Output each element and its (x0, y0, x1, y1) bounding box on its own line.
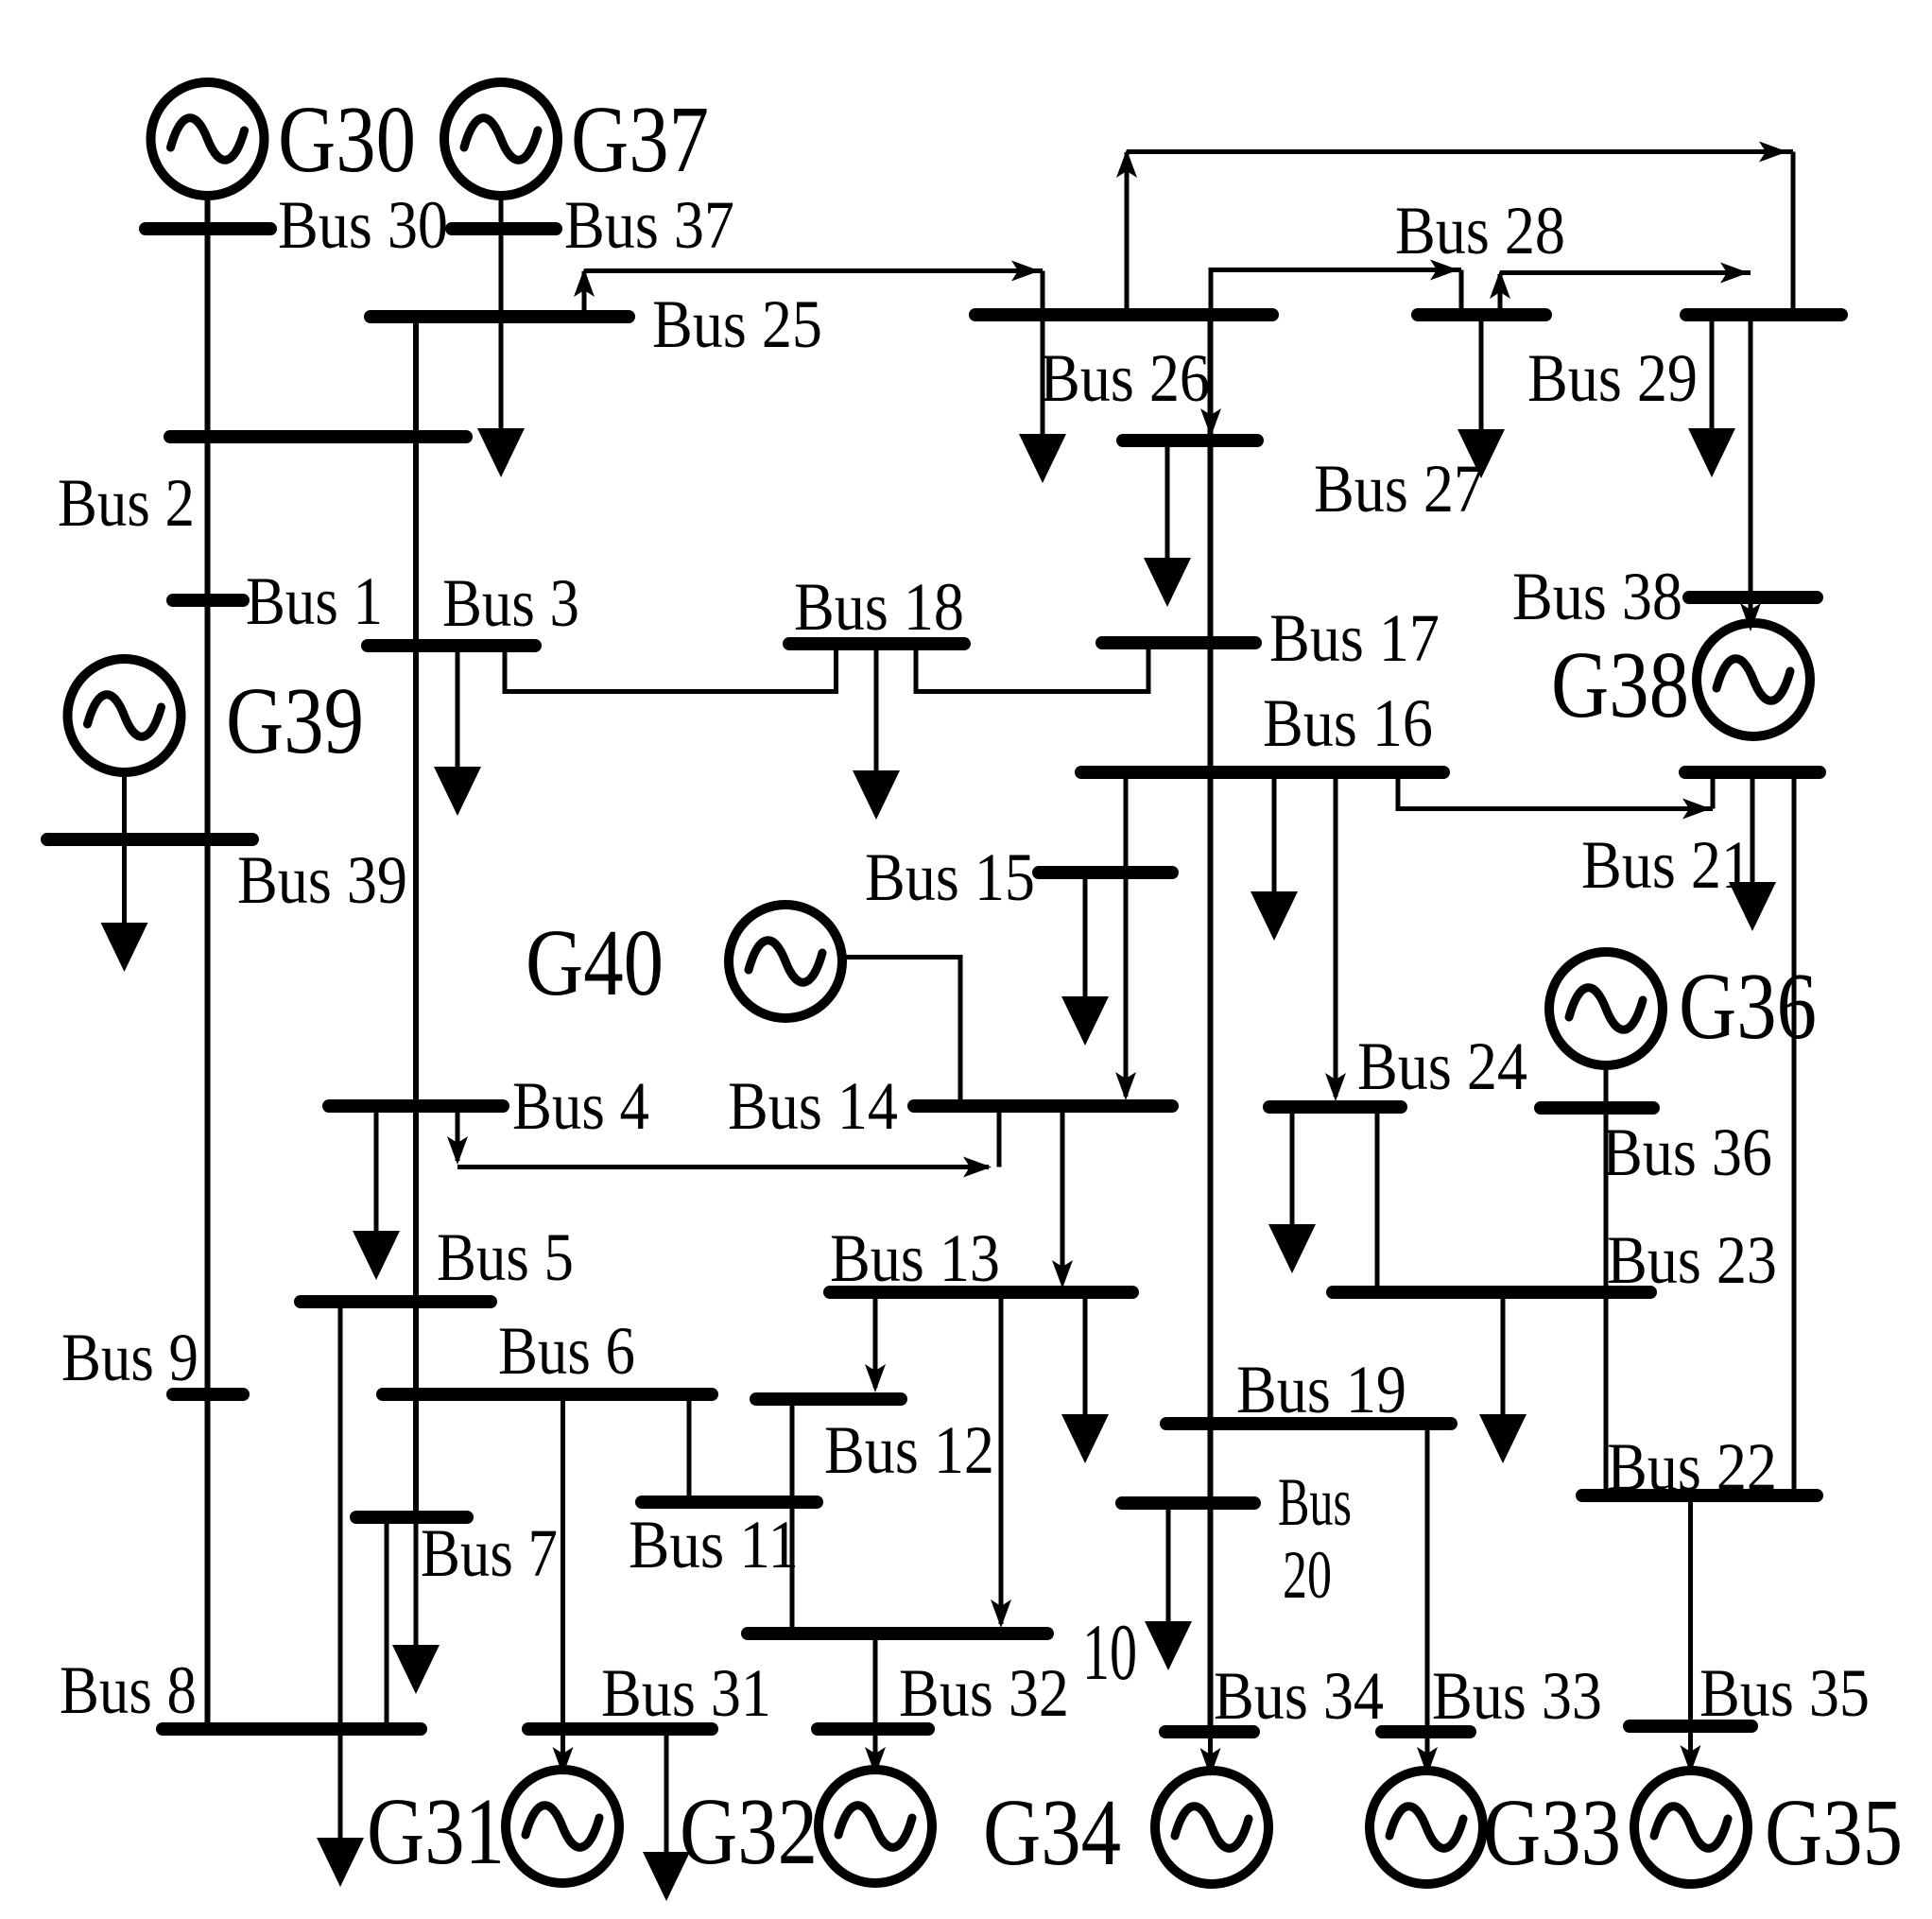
bus bar Bus 10 (748, 1627, 1047, 1640)
generator G34 (1155, 1771, 1268, 1884)
svg-text:Bus 25: Bus 25 (652, 286, 822, 362)
wire line 14-13 (1061, 1106, 1065, 1282)
bus bar Bus 16 (1081, 766, 1443, 779)
wire line 25-2-3-4-5-6-7 (vertical through Bus 2,3,4,5,6 to Bus 7) (413, 317, 419, 1517)
arrowhead line 28-29 end right (1720, 263, 1749, 284)
svg-text:G32: G32 (680, 1778, 818, 1884)
arrowhead line 13-10 end at Bus 10 (991, 1599, 1011, 1628)
generator G30 (151, 82, 265, 196)
svg-text:Bus 12: Bus 12 (824, 1412, 994, 1488)
svg-text:Bus 14: Bus 14 (728, 1068, 898, 1144)
svg-text:Bus 29: Bus 29 (1527, 340, 1698, 416)
wire line 12-11-10 (790, 1399, 795, 1634)
bus bar Bus 15 (1039, 866, 1172, 879)
generator G40 (729, 905, 842, 1018)
arrowhead G35 link (1681, 1745, 1701, 1773)
wire line 6-31-G31 (561, 1394, 565, 1764)
wire line 28-29 riser (1498, 274, 1503, 315)
svg-text:Bus 39: Bus 39 (237, 842, 407, 918)
svg-text:Bus 28: Bus 28 (1395, 193, 1565, 268)
svg-text:Bus 13: Bus 13 (830, 1220, 1000, 1296)
load arrow at Bus 26 (1019, 315, 1066, 483)
svg-text:Bus 35: Bus 35 (1699, 1655, 1870, 1731)
bus bar Bus 26 (975, 308, 1272, 321)
generator G31 (506, 1770, 619, 1883)
arrowhead line 16-21 end right (1682, 799, 1711, 820)
wire line 30-2-1-39-9-8 (vertical through Bus 2, Bus 1, Bus 39, Bus 9 to Bus 8) (205, 196, 211, 1729)
load arrow at Bus 3 (434, 646, 481, 816)
load arrow at Bus 31 (643, 1729, 690, 1901)
svg-text:Bus 23: Bus 23 (1607, 1222, 1777, 1298)
bus bar Bus 8 (163, 1722, 421, 1736)
wire line 34-G34 (1208, 1732, 1213, 1767)
load arrow at Bus 21 (1729, 772, 1776, 931)
svg-text:Bus 17: Bus 17 (1269, 600, 1440, 676)
bus bar Bus 2 (170, 430, 466, 443)
load arrow at Bus 25 (477, 317, 525, 477)
generator G38 (1697, 623, 1810, 736)
load arrow at Bus 18 (853, 644, 900, 820)
svg-text:G30: G30 (278, 86, 416, 192)
svg-text:G37: G37 (571, 86, 709, 192)
svg-text:G33: G33 (1483, 1779, 1621, 1885)
bus bar Bus 6 (383, 1388, 712, 1401)
load arrow at Bus 4 (353, 1106, 400, 1280)
wire line 25-26 horizontal (584, 268, 1043, 273)
svg-text:Bus 8: Bus 8 (60, 1652, 197, 1728)
svg-text:Bus 34: Bus 34 (1214, 1658, 1384, 1734)
bus bar Bus 7 (356, 1511, 467, 1524)
bus bar Bus 39 (47, 833, 252, 846)
wire line 28-29 horizontal (1500, 270, 1751, 275)
svg-text:Bus 6: Bus 6 (498, 1313, 635, 1389)
svg-text:Bus: Bus (1278, 1464, 1352, 1540)
load arrow at Bus 39 (101, 839, 148, 972)
arrowhead line 25-26 start up (574, 268, 595, 297)
bus bar Bus 9 (173, 1388, 243, 1401)
bus bar Bus 38 (1689, 591, 1817, 604)
arrowhead line 14-13 end at Bus 13 (1052, 1260, 1073, 1288)
bus bar Bus 23 (1333, 1286, 1650, 1299)
wire line 26-29 drop to Bus 29 (1791, 152, 1796, 316)
bus bar Bus 3 (368, 639, 535, 652)
bus bar Bus 13 (830, 1286, 1132, 1299)
svg-text:Bus 27: Bus 27 (1314, 451, 1484, 527)
svg-text:10: 10 (1082, 1608, 1137, 1697)
svg-text:Bus 26: Bus 26 (1040, 340, 1210, 416)
wire line 13-12 (873, 1292, 878, 1388)
svg-text:Bus 9: Bus 9 (61, 1320, 198, 1395)
arrowhead G33 link (1417, 1747, 1438, 1775)
bus bar Bus 24 (1269, 1100, 1401, 1114)
svg-text:G34: G34 (983, 1779, 1121, 1885)
svg-text:Bus 7: Bus 7 (421, 1515, 558, 1591)
bus bar Bus 30 (146, 222, 270, 235)
bus bar Bus 19 (1166, 1417, 1451, 1430)
wire line 18-17 (916, 643, 1148, 692)
wire line G40 to Bus 14 (842, 958, 960, 1102)
bus bar Bus 29 (1686, 308, 1841, 321)
wire line 29-38 to G38 (1749, 315, 1753, 620)
bus bar Bus 25 (371, 310, 629, 323)
svg-text:Bus 3: Bus 3 (442, 565, 579, 641)
svg-text:Bus 18: Bus 18 (794, 569, 964, 645)
svg-text:G40: G40 (526, 909, 664, 1015)
generator G35 (1634, 1771, 1748, 1884)
wire line 10-32-G32 (873, 1634, 878, 1764)
bus bar Bus 31 (528, 1722, 712, 1736)
load arrow at Bus 24 (1268, 1107, 1316, 1273)
arrowhead line 26-29 end right (1759, 142, 1787, 163)
arrowhead line 4-14 end right (963, 1157, 992, 1178)
arrowhead G32 link (865, 1747, 886, 1775)
wire line 26-28 (1211, 270, 1461, 316)
bus bar Bus 37 (452, 222, 556, 235)
svg-text:Bus 32: Bus 32 (899, 1655, 1069, 1731)
svg-text:Bus 22: Bus 22 (1607, 1429, 1777, 1505)
bus bar Bus 35 (1630, 1720, 1751, 1733)
arrowhead G38 link (1740, 603, 1761, 631)
wire line 26-29 riser (1125, 152, 1130, 315)
wire line 22-35-G35 (1688, 1495, 1693, 1764)
wire line 19-33-G33 (1425, 1424, 1430, 1764)
bus bar Bus 34 (1165, 1725, 1253, 1738)
svg-text:Bus 36: Bus 36 (1602, 1115, 1772, 1190)
generator G37 (444, 82, 558, 196)
bus bar Bus 14 (914, 1099, 1172, 1113)
wire line G36-36-23-22 (1604, 1065, 1609, 1495)
svg-text:Bus 31: Bus 31 (601, 1655, 771, 1731)
load arrow at Bus 23 (1479, 1292, 1527, 1463)
svg-text:20: 20 (1283, 1537, 1332, 1613)
svg-text:Bus 24: Bus 24 (1357, 1029, 1527, 1104)
svg-text:G38: G38 (1551, 631, 1689, 737)
generator G32 (819, 1770, 932, 1883)
wire line 16-21 (1398, 772, 1713, 809)
bus bar Bus 22 (1582, 1489, 1817, 1502)
svg-text:Bus 5: Bus 5 (437, 1219, 574, 1295)
svg-text:Bus 21: Bus 21 (1581, 827, 1751, 903)
svg-text:Bus 33: Bus 33 (1432, 1658, 1602, 1734)
bus bar Bus 21 (1685, 766, 1820, 779)
wire line G39-39 (122, 771, 127, 841)
generator G33 (1370, 1771, 1483, 1884)
svg-text:Bus 16: Bus 16 (1263, 685, 1433, 761)
wire line 25-26 (582, 271, 587, 317)
bus bar Bus 18 (789, 637, 964, 650)
load arrow at Bus 20 (1145, 1503, 1192, 1670)
svg-text:G39: G39 (226, 667, 364, 773)
svg-text:Bus 37: Bus 37 (564, 187, 734, 263)
arrowhead line 15-14 end at Bus 14 (1115, 1072, 1136, 1100)
wire line 26-29 horizontal (1127, 149, 1793, 154)
bus bar Bus 5 (301, 1295, 491, 1308)
bus bar Bus 27 (1123, 434, 1257, 447)
bus bar Bus 33 (1382, 1725, 1470, 1738)
svg-text:Bus 38: Bus 38 (1512, 559, 1682, 634)
svg-text:Bus 19: Bus 19 (1236, 1352, 1406, 1427)
svg-text:G35: G35 (1765, 1779, 1903, 1885)
bus bar Bus 4 (329, 1099, 503, 1113)
svg-text:G31: G31 (367, 1778, 505, 1884)
wire line 4-14 stub down from Bus 4 (456, 1106, 460, 1161)
wire line 16-24 (1334, 772, 1338, 1097)
wire line 3-18 (505, 644, 837, 692)
load arrow at Bus 27 (1144, 441, 1191, 607)
wire line 7-8 (385, 1517, 389, 1729)
arrowhead line 26-29 start up (1116, 149, 1137, 178)
load arrow at Bus 13 (1061, 1292, 1109, 1463)
svg-text:Bus 4: Bus 4 (512, 1068, 649, 1144)
wire line 13-10 (999, 1292, 1004, 1624)
bus bar Bus 12 (756, 1392, 901, 1406)
wire line 4-14 tick up to Bus 14 (997, 1106, 1002, 1167)
arrowhead line 13-12 end at Bus 12 (865, 1364, 886, 1392)
bus bar Bus 1 (173, 594, 243, 607)
arrowhead line 25-26 end right (1011, 261, 1040, 282)
wire line G37-37-25 (499, 196, 504, 320)
arrowhead line 26-27 end at Bus 27 (1200, 408, 1221, 437)
wire line 24-23 (1375, 1107, 1380, 1292)
wire line 16-15-14 (1124, 772, 1129, 1097)
wire line 4-14 horizontal (457, 1165, 989, 1169)
wire line 6-11 (687, 1394, 692, 1502)
bus bar Bus 17 (1102, 636, 1255, 649)
load arrow at Bus 16 (1251, 772, 1298, 941)
svg-text:Bus 11: Bus 11 (629, 1507, 799, 1582)
bus bar Bus 20 (1122, 1496, 1254, 1510)
generator G36 (1549, 952, 1663, 1065)
arrowhead line 4-14 corner down (447, 1136, 468, 1165)
arrowhead line 28-29 start up (1490, 270, 1510, 299)
wire line 26-28 drop to Bus 28 (1459, 270, 1464, 316)
wire line 26-27-17-16-19-20-34 long vertical (1208, 315, 1214, 1732)
wire line 5-8 (338, 1302, 343, 1729)
bus bar Bus 36 (1541, 1101, 1653, 1115)
load arrow at Bus 8 (317, 1729, 364, 1887)
load arrow at Bus 15 (1061, 873, 1109, 1046)
arrowhead line 16-24 end at Bus 24 (1325, 1073, 1346, 1101)
arrowhead G31 link (553, 1747, 574, 1775)
bus bar Bus 28 (1418, 308, 1545, 321)
svg-text:G36: G36 (1679, 953, 1817, 1059)
bus bar Bus 11 (642, 1495, 817, 1509)
bus bar Bus 32 (818, 1722, 928, 1736)
svg-text:Bus 15: Bus 15 (865, 839, 1035, 915)
load arrow at Bus 28 (1458, 315, 1505, 478)
svg-text:Bus 2: Bus 2 (58, 465, 195, 541)
load arrow at Bus 7 (392, 1517, 440, 1694)
wire line 16-21 tick up to Bus 21 (1711, 772, 1716, 809)
load arrow at Bus 29 (1688, 315, 1735, 477)
wire line 21-22 (1792, 772, 1797, 1495)
svg-text:Bus 30: Bus 30 (278, 187, 448, 263)
svg-text:Bus 1: Bus 1 (246, 563, 383, 639)
generator G39 (68, 659, 181, 772)
arrowhead G34 link (1200, 1748, 1221, 1776)
wire line 25-26 drop to Bus 26 (1041, 271, 1045, 316)
arrowhead line 26-28 end right (1430, 260, 1458, 281)
